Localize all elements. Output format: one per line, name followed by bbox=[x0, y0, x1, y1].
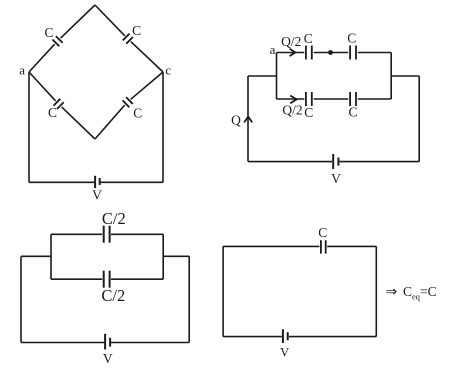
wire: parallel circuit inner left side bbox=[50, 234, 52, 279]
wire: outer right vertical bbox=[418, 76, 420, 162]
wire: mid-left horizontal tap bbox=[21, 255, 51, 257]
current arrow Q/2 on bottom branch bbox=[290, 96, 296, 104]
capacitor C1 (bridge upper-left) bbox=[52, 36, 62, 46]
capacitor C8 (bottom branch right) bbox=[350, 92, 356, 106]
capacitor C4 (bridge lower-right) bbox=[123, 97, 133, 107]
wire: mid-left horizontal tap bbox=[248, 75, 277, 77]
svg-text:C: C bbox=[133, 106, 142, 121]
wire: top branch right segment bbox=[358, 52, 391, 54]
wire: parallel circuit inner right side bbox=[162, 234, 164, 279]
svg-text:Q/2: Q/2 bbox=[281, 34, 301, 49]
wire: outer left vertical bbox=[20, 256, 22, 342]
wire: outer right vertical bbox=[188, 256, 190, 342]
svg-text:C: C bbox=[347, 30, 356, 45]
battery V2 (series-parallel source) bbox=[333, 154, 338, 169]
wire: bridge branch a to bottom vertex (lower-left diagonal) bbox=[29, 72, 95, 139]
wire: bottom branch right segment bbox=[358, 98, 391, 100]
result annotation: implies Ceq = C bbox=[386, 284, 437, 302]
wire: mid-right horizontal tap bbox=[391, 75, 419, 77]
capacitor C3 (bridge lower-left) bbox=[54, 99, 64, 109]
svg-text:C/2: C/2 bbox=[102, 209, 126, 228]
current arrow Q/2 on top branch bbox=[290, 49, 296, 56]
wire: bridge right vertical c down bbox=[162, 72, 164, 182]
capacitor Ceq (equivalent) bbox=[321, 240, 326, 253]
wire: bottom horizontal with battery gap bbox=[248, 161, 419, 163]
svg-text:C: C bbox=[304, 31, 313, 46]
svg-text:Q: Q bbox=[231, 113, 241, 128]
wire: parallel circuit inner top side with capacitor gap bbox=[51, 233, 163, 235]
wire: top branch middle segment bbox=[314, 52, 349, 54]
svg-text:C/2: C/2 bbox=[101, 286, 125, 305]
capacitor C/2 (parallel lower) bbox=[104, 271, 110, 288]
svg-text:V: V bbox=[280, 346, 289, 360]
battery V1 (bridge source) bbox=[95, 176, 100, 188]
svg-text:C: C bbox=[48, 105, 57, 120]
wire: bottom horizontal with battery gap bbox=[21, 342, 189, 344]
svg-text:V: V bbox=[92, 187, 102, 202]
wire: bridge bottom horizontal with battery gap bbox=[29, 181, 163, 183]
wire: inner left vertical joining the two branches bbox=[276, 53, 278, 100]
wire: bridge branch a to top vertex (upper-left diagonal) bbox=[29, 5, 95, 72]
svg-text:V: V bbox=[331, 171, 341, 186]
svg-text:C: C bbox=[132, 23, 141, 38]
svg-text:C: C bbox=[318, 225, 327, 240]
wire: bridge left vertical a down bbox=[28, 72, 30, 182]
capacitor C6 (top branch right) bbox=[350, 46, 356, 60]
wire: equivalent circuit top side with capacitor gap bbox=[223, 245, 376, 247]
capacitor C/2 (parallel upper) bbox=[104, 226, 110, 243]
battery V4 (equivalent circuit source) bbox=[283, 329, 288, 343]
svg-text:c: c bbox=[165, 62, 171, 77]
capacitor C5 (top branch left) bbox=[306, 46, 312, 60]
wire: equivalent circuit left side bbox=[222, 246, 224, 336]
wire: bottom branch left segment with current arrow bbox=[277, 98, 305, 100]
wire: top branch left segment with current arrow bbox=[277, 52, 305, 54]
wire: bridge branch bottom vertex to c (lower-right diagonal) bbox=[95, 72, 163, 139]
wire: bottom branch middle segment bbox=[314, 98, 349, 100]
capacitor C7 (bottom branch left) bbox=[306, 92, 312, 106]
svg-text:V: V bbox=[103, 351, 113, 366]
charge arrow Q (upward) bbox=[244, 117, 252, 123]
wire: mid-right horizontal tap bbox=[163, 255, 189, 257]
svg-text:a: a bbox=[19, 63, 25, 78]
svg-text:C: C bbox=[348, 104, 357, 119]
svg-text:⇒Ceq=C: ⇒Ceq=C bbox=[386, 284, 437, 302]
svg-text:Q/2: Q/2 bbox=[282, 102, 302, 117]
wire: bridge branch top vertex to c (upper-right diagonal) bbox=[95, 5, 163, 72]
battery V3 (parallel circuit source) bbox=[105, 334, 110, 350]
junction dot between series capacitors bbox=[328, 50, 333, 55]
svg-text:C: C bbox=[44, 25, 53, 40]
capacitor C2 (bridge upper-right) bbox=[123, 34, 133, 44]
wire: equivalent circuit right side bbox=[375, 246, 377, 336]
wire: parallel circuit inner bottom side with capacitor gap bbox=[51, 278, 163, 280]
wire: inner right vertical joining the two branches bbox=[390, 53, 392, 100]
svg-text:C: C bbox=[304, 105, 313, 120]
svg-text:a: a bbox=[270, 42, 276, 57]
wire: equivalent circuit bottom side with battery gap bbox=[223, 336, 376, 338]
wire: outer left vertical with charge arrow bbox=[247, 76, 249, 162]
